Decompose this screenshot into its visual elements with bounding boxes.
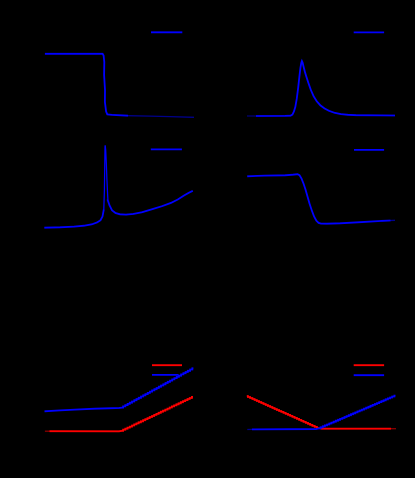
curve B5 blue rising (bottom-left) <box>45 368 194 411</box>
legend dash B5 blue <box>152 374 179 376</box>
curve S2 impulse peak (top-right) <box>247 61 395 116</box>
curve S1 step-down response (top-left) <box>45 54 194 118</box>
curve B5 red rising (bottom-left) <box>45 397 193 431</box>
legend dash B6 red <box>354 364 384 366</box>
curve B6 blue flat then rising (bottom-right) <box>247 396 395 430</box>
curve S4 sigmoid step-down (mid-right) <box>247 174 395 224</box>
curve S3 resonance spike (mid-left) <box>44 145 193 227</box>
legend dash B6 blue <box>354 374 384 376</box>
legend dash S4 <box>354 149 384 151</box>
curve B6 red descending then flat (bottom-right) <box>247 396 396 429</box>
legend dash S2 <box>354 31 384 33</box>
legend dash S3 <box>151 148 182 150</box>
legend dash B5 red <box>152 364 182 366</box>
legend dash S1 <box>151 31 182 33</box>
